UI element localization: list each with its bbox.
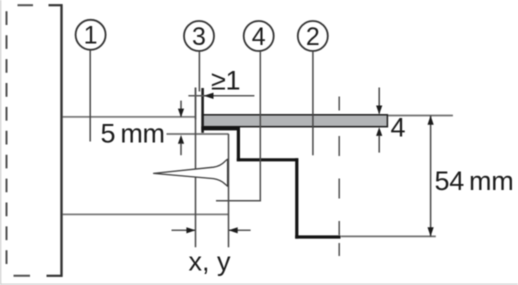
hob left edge thick [201,88,204,133]
svg-text:4: 4 [391,113,406,143]
callout circle 3 [184,21,214,51]
svg-text:5 mm: 5 mm [101,119,165,149]
scan artifact left edge [0,0,2,285]
wall top stub [49,4,63,6]
svg-text:3: 3 [192,23,206,51]
scan artifact bottom edge [0,283,518,285]
cabinet dashed top [18,4,43,6]
step bottom [295,235,340,238]
centre dashed line [338,97,340,257]
dim 5mm upper arrow [178,109,184,118]
step shelf [237,158,298,161]
callout circle 1 [76,20,106,50]
callout circle 4 [244,21,274,51]
hob frame underline thick [201,126,240,130]
dim 54 top arrow [428,116,434,125]
dim ge1 line [188,95,254,97]
cabinet dashed vertical [6,11,8,270]
hob glass bar [202,115,387,127]
svg-text:54 mm: 54 mm [435,166,514,196]
cutout wall extension line [195,88,197,248]
dim 4 upper arrow [376,106,382,115]
svg-text:4: 4 [252,23,266,51]
svg-text:x, y: x, y [189,246,232,276]
dim 54 bottom extension [341,235,436,237]
leader 3 [198,52,200,92]
cabinet dashed bottom [14,275,41,277]
svg-text:2: 2 [306,23,320,51]
dim 54 bottom arrow [428,227,434,236]
dim 5mm upper line [180,101,182,117]
dim xy right arrow [229,227,238,233]
xy right extension line [228,134,230,248]
dim 5mm lower line [180,143,182,155]
sealant trumpet [154,159,228,186]
dim xy line right [229,229,251,231]
dim ge1 arrow [204,93,214,99]
dim 5mm lower arrow [178,135,184,144]
svg-text:≥1: ≥1 [211,66,240,96]
leader 1 [89,50,91,141]
dim xy left arrow [186,227,195,233]
wall vertical line [60,4,62,277]
svg-text:1: 1 [84,22,98,50]
dim ge1 tick left [195,88,197,120]
dim 4 lower arrow [376,127,382,136]
rebate floor line [167,133,229,135]
worktop surface line [63,116,195,118]
dim 54 vertical line [430,116,432,237]
lower horizontal line [63,213,229,215]
dim 54 top extension [388,115,453,117]
step down 1 [237,127,240,161]
leader 4 [216,52,260,201]
callout circle 2 [298,21,328,51]
step down 2 [295,158,298,238]
wall bottom stub [47,275,63,277]
dim 4 lower line [378,135,380,152]
dim 4 upper line [378,88,380,114]
dim xy line left [172,229,196,231]
leader 2 [312,52,314,156]
